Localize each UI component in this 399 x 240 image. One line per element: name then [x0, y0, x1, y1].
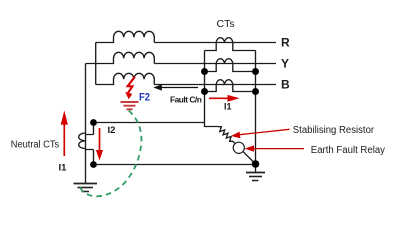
wire neutral CT bottom tap	[86, 150, 94, 165]
node Y CT right	[252, 68, 259, 75]
arrow I1 up (red, neutral)	[61, 111, 68, 156]
node relay ground junction	[252, 160, 260, 168]
svg-text:Neutral CTs: Neutral CTs	[11, 139, 59, 150]
svg-text:Y: Y	[281, 57, 289, 71]
ground fault (red)	[121, 102, 139, 109]
CT Y secondary staple	[205, 64, 256, 72]
wire CT left bus	[205, 51, 219, 127]
node B CT right	[252, 88, 259, 95]
svg-text:CTs: CTs	[217, 18, 235, 30]
wire CT right bus	[255, 51, 257, 165]
svg-text:I2: I2	[108, 125, 116, 136]
wire neutral CT top tap	[86, 123, 94, 135]
svg-text:F2: F2	[139, 91, 150, 103]
wire star-point vertical	[95, 43, 97, 85]
winding coil 3 (B phase)	[96, 73, 276, 84]
arrow label earth fault relay (red)	[245, 145, 305, 151]
node neutral CT bottom	[90, 161, 97, 168]
winding coil 1 (R phase)	[96, 31, 276, 42]
CT B secondary staple	[205, 85, 256, 92]
ground right	[246, 164, 265, 181]
wire relay bottom line	[94, 164, 256, 166]
node B CT left	[201, 88, 208, 95]
earth path loop (green dashed)	[80, 111, 141, 197]
svg-text:B: B	[281, 78, 290, 92]
svg-text:I1: I1	[224, 102, 232, 112]
wire neutral bus	[85, 64, 87, 184]
winding coil 2 (Y phase)	[86, 52, 277, 63]
arrow I1 right (red, CT secondary)	[209, 95, 240, 102]
node neutral CT top	[90, 119, 97, 126]
neutral CT winding	[79, 133, 86, 149]
arrow I2 down (red)	[96, 128, 103, 161]
earth fault relay (circle)	[233, 142, 244, 153]
wire relay to junction	[243, 151, 256, 164]
CT R primary humps	[216, 38, 233, 43]
CT R secondary staple	[205, 43, 256, 51]
svg-text:Stabilising Resistor: Stabilising Resistor	[293, 125, 375, 136]
arrow fault current (black, left)	[153, 84, 198, 90]
CT Y primary humps	[216, 59, 233, 64]
fault bolt F2	[128, 77, 135, 93]
wire relay top line	[94, 122, 205, 124]
svg-text:Fault C/n: Fault C/n	[170, 94, 202, 104]
CT B primary humps	[216, 80, 233, 85]
resistor R stabilising	[218, 127, 235, 144]
node Y CT left	[201, 68, 208, 75]
svg-text:R: R	[281, 35, 290, 49]
ground left	[74, 184, 98, 192]
svg-text:I1: I1	[59, 162, 68, 173]
svg-text:Earth Fault Relay: Earth Fault Relay	[311, 145, 385, 156]
arrow label stabilising resistor (red)	[231, 129, 290, 138]
junction dots	[90, 68, 259, 168]
